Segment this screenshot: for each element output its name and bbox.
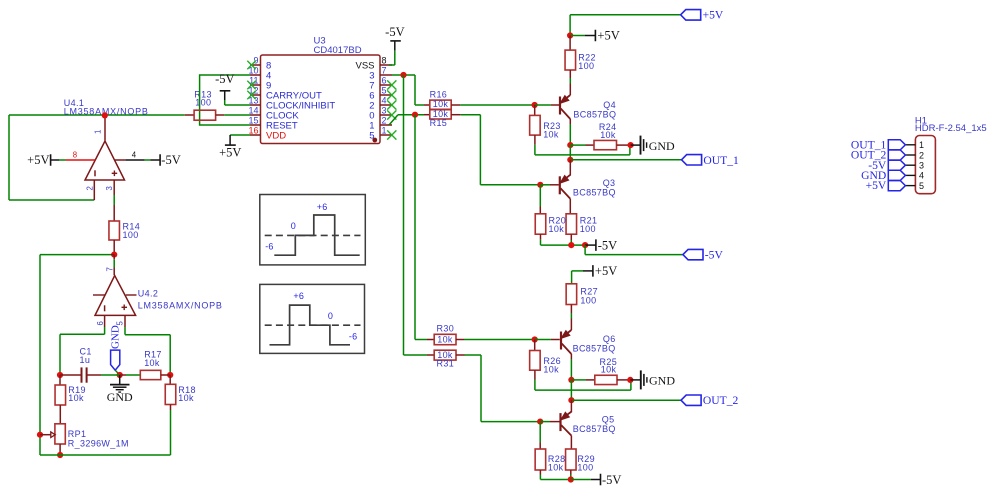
svg-text:10k: 10k <box>549 224 565 234</box>
svg-text:+5V: +5V <box>703 9 724 22</box>
svg-text:0: 0 <box>291 221 296 231</box>
svg-text:-5V: -5V <box>602 473 621 487</box>
svg-text:-5V: -5V <box>385 25 404 39</box>
svg-text:7: 7 <box>106 267 115 271</box>
svg-text:6: 6 <box>382 75 387 85</box>
svg-text:100: 100 <box>195 98 211 108</box>
svg-text:VDD: VDD <box>266 130 286 141</box>
svg-text:10k: 10k <box>433 99 449 109</box>
svg-text:OUT_2: OUT_2 <box>703 394 739 407</box>
svg-text:10k: 10k <box>543 129 559 139</box>
svg-text:-5V: -5V <box>215 72 234 86</box>
svg-text:GND: GND <box>649 374 675 388</box>
svg-text:+6: +6 <box>293 291 304 301</box>
svg-text:BC857BQ: BC857BQ <box>573 188 616 198</box>
svg-text:BC857BQ: BC857BQ <box>573 110 616 120</box>
svg-text:1u: 1u <box>80 355 91 365</box>
svg-text:R16: R16 <box>430 90 448 100</box>
svg-text:4: 4 <box>382 95 387 105</box>
svg-text:2: 2 <box>85 186 94 190</box>
svg-text:R31: R31 <box>437 359 455 369</box>
svg-text:R15: R15 <box>430 118 448 128</box>
svg-text:100: 100 <box>578 61 594 71</box>
svg-text:-5V: -5V <box>161 153 180 167</box>
svg-text:5: 5 <box>116 321 125 326</box>
svg-text:10k: 10k <box>600 130 616 140</box>
svg-text:4: 4 <box>132 151 137 160</box>
svg-text:1: 1 <box>94 130 103 134</box>
svg-text:Q5: Q5 <box>602 414 615 424</box>
svg-text:15: 15 <box>248 115 258 125</box>
svg-text:10k: 10k <box>178 393 194 403</box>
svg-text:-6: -6 <box>349 331 357 341</box>
svg-text:-5V: -5V <box>705 249 724 262</box>
svg-text:BC857BQ: BC857BQ <box>573 344 616 354</box>
svg-text:GND: GND <box>107 390 133 404</box>
svg-text:GND: GND <box>649 139 675 153</box>
svg-text:+6: +6 <box>317 202 328 212</box>
svg-text:10k: 10k <box>144 358 160 368</box>
svg-text:BC857BQ: BC857BQ <box>573 424 616 434</box>
svg-text:3: 3 <box>382 105 387 115</box>
svg-text:5: 5 <box>382 85 387 95</box>
svg-text:1: 1 <box>382 125 387 135</box>
svg-text:+5V: +5V <box>866 179 887 192</box>
svg-text:+5V: +5V <box>27 153 49 167</box>
svg-text:7: 7 <box>382 65 387 75</box>
svg-text:-5V: -5V <box>598 238 617 252</box>
svg-text:100: 100 <box>580 224 596 234</box>
svg-text:4: 4 <box>919 171 924 181</box>
svg-text:10k: 10k <box>543 364 559 374</box>
svg-text:U4.2: U4.2 <box>138 288 158 298</box>
svg-text:OUT_1: OUT_1 <box>703 154 739 167</box>
svg-text:100: 100 <box>123 230 139 240</box>
svg-text:8: 8 <box>382 55 387 65</box>
svg-text:100: 100 <box>580 295 596 305</box>
svg-text:+5V: +5V <box>595 264 617 278</box>
svg-text:3: 3 <box>105 186 114 190</box>
svg-text:-6: -6 <box>265 242 273 252</box>
svg-text:2: 2 <box>919 150 924 160</box>
svg-text:R_3296W_1M: R_3296W_1M <box>68 439 129 449</box>
svg-text:2: 2 <box>382 115 387 125</box>
svg-text:+5V: +5V <box>219 145 241 159</box>
svg-text:1: 1 <box>919 140 924 150</box>
svg-text:GND: GND <box>110 325 122 349</box>
svg-text:CD4017BD: CD4017BD <box>314 45 362 56</box>
svg-text:100: 100 <box>577 463 593 473</box>
svg-text:HDR-F-2.54_1x5: HDR-F-2.54_1x5 <box>915 123 987 134</box>
svg-text:3: 3 <box>919 161 924 171</box>
svg-text:Q4: Q4 <box>603 100 616 110</box>
svg-text:9: 9 <box>253 55 258 65</box>
svg-text:0: 0 <box>328 311 333 321</box>
svg-text:5: 5 <box>919 181 924 191</box>
svg-text:8: 8 <box>73 151 77 160</box>
svg-text:Q3: Q3 <box>603 178 616 188</box>
svg-text:R30: R30 <box>437 324 455 334</box>
svg-text:+5V: +5V <box>597 29 619 43</box>
svg-text:6: 6 <box>96 321 105 325</box>
svg-text:10k: 10k <box>68 393 84 403</box>
svg-text:16: 16 <box>248 125 258 135</box>
svg-text:LM358AMX/NOPB: LM358AMX/NOPB <box>138 301 223 311</box>
svg-text:10k: 10k <box>548 463 564 473</box>
svg-text:10k: 10k <box>437 334 453 344</box>
svg-text:10k: 10k <box>601 365 617 375</box>
svg-text:14: 14 <box>248 105 258 115</box>
